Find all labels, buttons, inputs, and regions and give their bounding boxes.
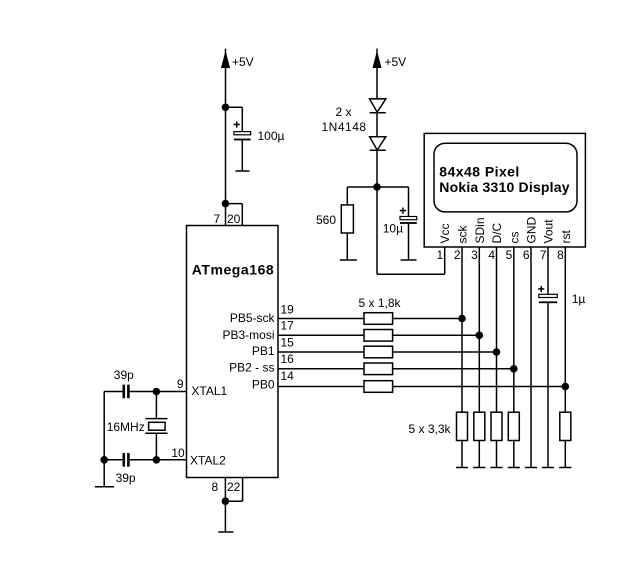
svg-text:sck: sck <box>456 225 470 244</box>
svg-text:2 x: 2 x <box>336 105 352 119</box>
svg-text:20: 20 <box>227 212 241 226</box>
svg-text:Vcc: Vcc <box>438 223 452 243</box>
svg-text:+5V: +5V <box>232 55 254 69</box>
svg-text:9: 9 <box>177 377 184 391</box>
svg-text:39p: 39p <box>114 368 134 382</box>
svg-text:1N4148: 1N4148 <box>322 120 367 134</box>
svg-text:+5V: +5V <box>385 55 407 69</box>
svg-text:Nokia 3310 Display: Nokia 3310 Display <box>439 179 569 195</box>
svg-text:GND: GND <box>525 217 539 244</box>
svg-text:39p: 39p <box>116 471 136 485</box>
svg-text:22: 22 <box>227 480 241 494</box>
svg-text:PB0: PB0 <box>252 378 275 392</box>
svg-text:cs: cs <box>507 232 521 244</box>
svg-text:7: 7 <box>214 212 221 226</box>
svg-text:10µ: 10µ <box>383 222 403 236</box>
svg-text:5 x 3,3k: 5 x 3,3k <box>409 422 452 436</box>
svg-text:19: 19 <box>281 303 295 317</box>
svg-text:16: 16 <box>281 352 295 366</box>
svg-text:4: 4 <box>488 248 495 262</box>
svg-text:XTAL2: XTAL2 <box>190 454 226 468</box>
svg-text:PB1: PB1 <box>252 344 275 358</box>
svg-text:6: 6 <box>523 248 530 262</box>
svg-text:5: 5 <box>506 248 513 262</box>
svg-text:10: 10 <box>171 446 185 460</box>
svg-text:PB5-sck: PB5-sck <box>230 311 276 325</box>
svg-text:560: 560 <box>316 213 336 227</box>
svg-text:1: 1 <box>437 248 444 262</box>
svg-text:84x48 Pixel: 84x48 Pixel <box>439 164 519 180</box>
svg-text:5 x 1,8k: 5 x 1,8k <box>358 296 401 310</box>
svg-text:100µ: 100µ <box>258 129 285 143</box>
svg-text:PB2 - ss: PB2 - ss <box>229 361 274 375</box>
svg-text:7: 7 <box>540 248 547 262</box>
svg-text:ATmega168: ATmega168 <box>192 262 275 278</box>
svg-text:SDin: SDin <box>473 217 487 243</box>
svg-text:17: 17 <box>281 319 295 333</box>
svg-text:8: 8 <box>212 480 219 494</box>
svg-text:XTAL1: XTAL1 <box>191 384 227 398</box>
svg-text:14: 14 <box>281 369 295 383</box>
svg-text:PB3-mosi: PB3-mosi <box>222 328 274 342</box>
svg-text:8: 8 <box>557 248 564 262</box>
svg-text:15: 15 <box>281 335 295 349</box>
svg-text:1µ: 1µ <box>572 292 586 306</box>
svg-text:16MHz: 16MHz <box>107 420 145 434</box>
svg-text:3: 3 <box>471 248 478 262</box>
svg-text:D/C: D/C <box>490 223 504 244</box>
svg-text:2: 2 <box>454 248 461 262</box>
svg-text:rst: rst <box>559 230 573 244</box>
svg-text:Vout: Vout <box>542 219 556 244</box>
